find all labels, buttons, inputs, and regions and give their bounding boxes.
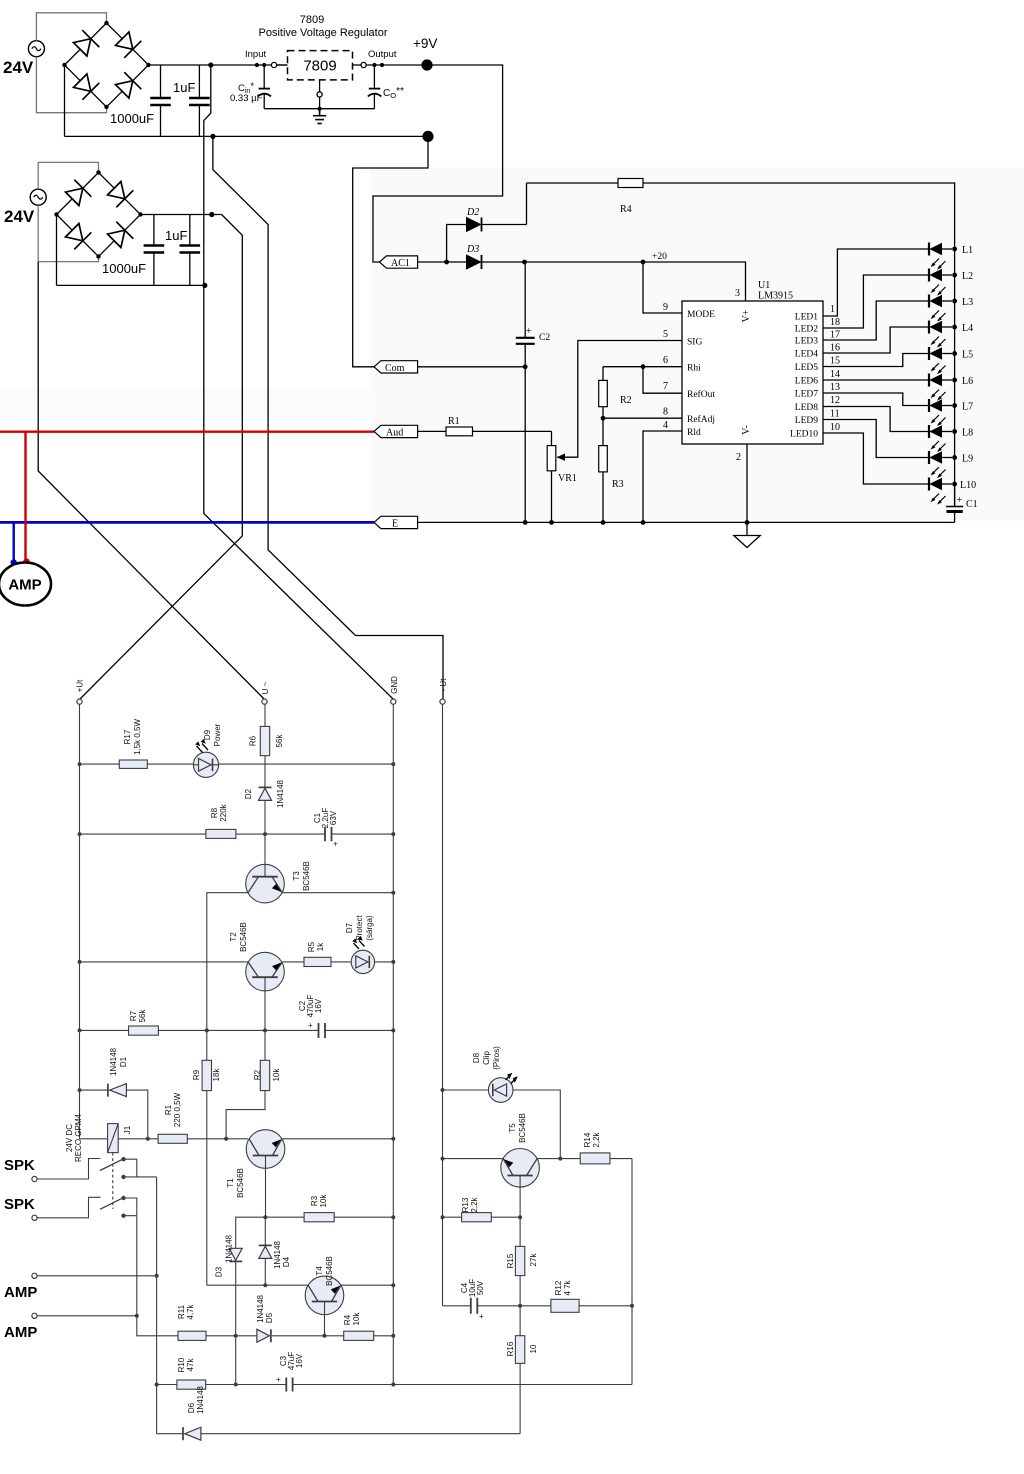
junction dots R3 row: [263, 1215, 395, 1219]
wire source2 to U~ route: [38, 262, 264, 699]
junction dot +20 at C2: [522, 260, 527, 265]
svg-text:4: 4: [663, 420, 668, 431]
wire LED8 pin 12: [823, 407, 929, 432]
svg-text:R6: R6: [249, 735, 258, 746]
svg-text:T2: T2: [229, 932, 238, 942]
svg-text:R15: R15: [506, 1253, 515, 1268]
svg-text:BC546B: BC546B: [302, 861, 311, 891]
AC source V2 24V (bridge 2): [30, 189, 46, 205]
svg-text:1: 1: [830, 304, 835, 315]
LED L3: [929, 295, 957, 322]
wire branch up to D2: [447, 225, 467, 263]
right rail: [631, 1159, 633, 1385]
bridge B2 diode top-right: [108, 182, 134, 208]
wire D1 row: [80, 1089, 108, 1091]
svg-text:D3: D3: [215, 1266, 224, 1277]
svg-text:SIG: SIG: [687, 338, 702, 348]
pin MODE (9): [643, 262, 715, 320]
AC source V1 24V (bridge 1): [28, 41, 44, 57]
svg-text:18k: 18k: [212, 1068, 221, 1082]
LED L4: [929, 321, 957, 348]
wire E rail: [418, 521, 955, 523]
svg-text:R11: R11: [177, 1304, 186, 1319]
svg-text:Aud: Aud: [386, 427, 403, 438]
svg-text:9: 9: [663, 302, 668, 313]
svg-text:Positive Voltage Regulator: Positive Voltage Regulator: [258, 27, 387, 39]
svg-text:AMP: AMP: [8, 577, 41, 594]
resistor R14: [580, 1153, 610, 1164]
D5 row wire: [206, 1335, 393, 1337]
diode D5: [257, 1329, 271, 1342]
LED L8: [929, 425, 957, 452]
AMP block circle: [0, 563, 51, 606]
transistor T3: [246, 834, 285, 903]
bridge rectifier B2 edges: [57, 173, 141, 257]
wire LED9 pin 11: [823, 420, 929, 458]
svg-text:RefAdj: RefAdj: [687, 414, 715, 425]
wire T2 emitter to R5: [282, 961, 304, 963]
svg-text:R14: R14: [583, 1132, 592, 1147]
bridge B2 diode left-top: [66, 180, 92, 206]
LED D8 Clip: [488, 1073, 560, 1159]
capacitor 1uF (bridge 2): [180, 215, 201, 286]
wire B1 ground to -Ut route: [213, 136, 443, 699]
node dot +9V (big): [421, 59, 432, 70]
red node dot AMP: [23, 558, 29, 564]
svg-text:D7: D7: [345, 922, 354, 933]
svg-text:5: 5: [663, 329, 668, 340]
svg-text:VR1: VR1: [558, 473, 577, 484]
svg-text:R13: R13: [461, 1197, 470, 1212]
resistor R9: [202, 1030, 211, 1285]
potentiometer VR1: [547, 431, 566, 522]
capacitor C1 (top section): [946, 484, 963, 522]
svg-text:RECO GPM4: RECO GPM4: [74, 1113, 83, 1162]
svg-text:D9: D9: [203, 729, 212, 740]
svg-text:R2: R2: [620, 395, 632, 406]
svg-text:13: 13: [830, 382, 840, 393]
svg-text:15: 15: [830, 356, 840, 367]
wire +20 line (D3 to pin3): [525, 262, 746, 301]
svg-text:24V: 24V: [3, 58, 34, 77]
svg-text:R7: R7: [129, 1010, 138, 1021]
relay coil J1: [80, 1124, 159, 1153]
svg-text:R12: R12: [554, 1280, 563, 1295]
wire R14 to right rail: [610, 1158, 632, 1160]
resistor R13: [462, 1213, 492, 1222]
bridge B2 diode bottom-right: [108, 222, 134, 248]
svg-text:+20: +20: [652, 252, 667, 262]
wire LED6 pin 14: [823, 379, 929, 381]
U~ rail to R6: [264, 704, 266, 726]
wire B2+ to +Ut route: [80, 215, 242, 700]
svg-text:R5: R5: [307, 941, 316, 952]
node dot ground rail (big): [422, 131, 433, 142]
svg-text:L6: L6: [962, 376, 973, 387]
terminal +Ut: [77, 699, 82, 704]
AMP terminal 2: [32, 1313, 37, 1318]
junction dots D5 row: [234, 1334, 396, 1338]
wire AC1 to D3: [418, 261, 467, 263]
LED L5: [929, 347, 957, 374]
transistor T2: [246, 952, 285, 1030]
svg-text:R17: R17: [123, 729, 132, 744]
capacitor C1 (display board): [325, 827, 338, 849]
resistor R3: [599, 446, 608, 523]
resistor R2: [599, 367, 608, 446]
SPK terminal 1: [32, 1176, 37, 1181]
junction dot Rhi/RefOut: [641, 364, 646, 369]
svg-text:LED10: LED10: [790, 430, 818, 440]
junction dots row2: [78, 832, 396, 836]
svg-text:16: 16: [830, 343, 840, 354]
wire B2 + output rail (y=214.5): [141, 214, 222, 216]
LED L1: [929, 243, 957, 270]
svg-text:1N4148: 1N4148: [196, 1385, 205, 1414]
junction dot D2/D3 branch: [444, 260, 449, 265]
junction dot T3 emitter/GND: [391, 891, 395, 895]
svg-text:LED5: LED5: [795, 363, 818, 373]
R13 row wire: [443, 1216, 521, 1218]
wire B2 left node down: [56, 215, 58, 286]
svg-text:4 7k: 4 7k: [563, 1279, 572, 1295]
wire T5 collector to R14: [537, 1158, 580, 1160]
svg-text:R4: R4: [620, 204, 632, 215]
svg-text:Input: Input: [245, 49, 266, 60]
svg-text:1,5k 0,5W: 1,5k 0,5W: [133, 719, 142, 755]
relay contact 2: [37, 1196, 137, 1218]
junction dots on E rail: [523, 520, 750, 525]
svg-text:D6: D6: [187, 1402, 196, 1413]
svg-text:BC546B: BC546B: [239, 922, 248, 952]
svg-text:+: +: [479, 1312, 484, 1321]
svg-text:R3: R3: [310, 1195, 319, 1206]
pin SIG (5): [559, 329, 702, 457]
red wire stub to AMP: [24, 432, 26, 559]
diode D3 (display board): [229, 1248, 242, 1384]
svg-text:6: 6: [663, 355, 668, 366]
svg-text:(sárga): (sárga): [365, 915, 374, 941]
svg-text:1k: 1k: [316, 942, 325, 951]
wire source1 bottom loop: [36, 57, 106, 113]
resistor R11: [178, 1331, 206, 1340]
capacitor 1000uF (bridge 2): [144, 215, 165, 286]
junction dots row5: [78, 1028, 396, 1032]
svg-text:1N4148: 1N4148: [273, 1240, 282, 1269]
junction dot B2 + rail: [209, 212, 214, 217]
terminal -Ut: [440, 699, 445, 704]
junction dots R13 row: [441, 1215, 523, 1219]
svg-text:LED6: LED6: [795, 377, 818, 387]
wire LED3 pin 17: [823, 301, 929, 340]
svg-text:LED4: LED4: [795, 350, 818, 360]
output junction dots: [372, 63, 384, 67]
wire R5 to D7: [331, 961, 351, 963]
svg-text:E: E: [392, 519, 398, 530]
svg-text:1N4148: 1N4148: [276, 779, 285, 808]
svg-text:T1: T1: [226, 1178, 235, 1188]
svg-text:47k: 47k: [186, 1358, 195, 1372]
node dots bridge B2: [54, 170, 142, 258]
wire B1 + output rail (y=65): [149, 64, 288, 66]
bridge B2 diode left-bottom: [66, 224, 92, 250]
svg-text:Rhi: Rhi: [687, 364, 701, 374]
svg-text:SPK: SPK: [4, 1196, 35, 1213]
svg-text:56k: 56k: [138, 1009, 147, 1023]
LED column rail: [954, 249, 956, 506]
D6 row wire: [157, 1433, 183, 1435]
capacitor C3: [276, 1375, 293, 1392]
svg-text:LED7: LED7: [795, 390, 818, 400]
LED L9: [929, 451, 957, 478]
svg-text:1N4148: 1N4148: [109, 1047, 118, 1076]
junction dot T4/GND: [391, 1283, 395, 1287]
pin RefOut (7): [643, 367, 715, 401]
svg-text:R1: R1: [164, 1104, 173, 1115]
svg-text:+: +: [333, 840, 338, 849]
transistor T1: [246, 1130, 285, 1218]
capacitor C4: [471, 1298, 484, 1321]
svg-text:220 0,5W: 220 0,5W: [173, 1092, 182, 1127]
diode D3: [467, 255, 525, 269]
wire +9V to AC1 routing: [373, 65, 503, 262]
diode D2 (display board): [259, 787, 272, 834]
junction dot 7809 ground: [318, 107, 322, 111]
svg-text:17: 17: [830, 330, 840, 341]
svg-text:Rld: Rld: [687, 428, 701, 438]
svg-text:R2: R2: [253, 1069, 262, 1080]
svg-text:L7: L7: [962, 402, 973, 413]
svg-text:AC1: AC1: [391, 258, 410, 269]
LED L7: [929, 399, 957, 426]
input junction dots: [255, 63, 267, 67]
resistor R5: [304, 957, 331, 966]
capacitor Cin 0.33uF: [258, 65, 271, 109]
wire contact1 down column: [156, 1177, 158, 1434]
wire LED10 pin 10: [823, 433, 929, 484]
junction dot +20 at MODE branch: [641, 260, 646, 265]
wire B1 ground rail (y=136.4): [65, 135, 429, 137]
svg-text:L10: L10: [960, 480, 976, 491]
svg-text:2: 2: [736, 452, 741, 463]
row3 wire T2 collector from +Ut: [80, 961, 249, 963]
svg-text:R3: R3: [612, 479, 624, 490]
svg-text:10k: 10k: [272, 1068, 281, 1082]
svg-text:L1: L1: [962, 245, 973, 256]
tag AC1: [380, 256, 418, 269]
wire B2 ground rail (y=285.4): [57, 284, 205, 286]
pin V- (2) stub: [736, 444, 747, 536]
bridge rectifier B1 edges: [65, 23, 149, 107]
+Ut rail: [79, 704, 81, 1139]
svg-text:T4: T4: [315, 1266, 324, 1276]
pin labels LED1-LED10: [790, 313, 818, 440]
svg-text:AMP: AMP: [4, 1324, 37, 1341]
svg-text:1000uF: 1000uF: [102, 261, 146, 276]
svg-text:GND: GND: [390, 676, 399, 694]
transistor T4: [305, 1276, 344, 1336]
junction dot D8/-Ut: [441, 1088, 445, 1092]
svg-text:Com: Com: [385, 363, 405, 374]
svg-text:1uF: 1uF: [173, 80, 195, 95]
svg-text:MODE: MODE: [687, 310, 715, 320]
blue wire stub to AMP: [12, 522, 14, 560]
regulator U 7809 dashed box: [288, 51, 353, 80]
svg-text:24V: 24V: [4, 207, 35, 226]
svg-text:R1: R1: [448, 416, 460, 427]
svg-text:220k: 220k: [219, 803, 228, 821]
R3 row wire: [236, 1217, 394, 1248]
relay contact 1: [37, 1157, 157, 1179]
svg-text:T5: T5: [508, 1123, 517, 1133]
svg-text:D4: D4: [282, 1256, 291, 1267]
svg-text:0.33 µF: 0.33 µF: [230, 93, 263, 104]
junction dot AMP1: [155, 1274, 159, 1278]
svg-text:L3: L3: [962, 297, 973, 308]
wire T4 emitter to GND rail: [341, 1284, 393, 1286]
wire source1 top loop: [36, 13, 106, 41]
resistor R6: [260, 726, 269, 787]
bridge B1 diode left-bottom: [74, 74, 100, 100]
svg-text:Power: Power: [213, 723, 222, 746]
svg-text:+: +: [308, 1021, 313, 1030]
junction dots C3 row: [155, 1383, 396, 1387]
svg-text:24V DC: 24V DC: [65, 1124, 74, 1152]
resistor R17: [119, 760, 147, 768]
resistor R10: [177, 1380, 206, 1389]
wire AMP1: [37, 1275, 157, 1277]
resistor R1: [446, 427, 473, 436]
resistor R16: [515, 1306, 524, 1434]
svg-text:BC546B: BC546B: [325, 1256, 334, 1286]
junction dot D8 branch/T5 row: [558, 1157, 562, 1161]
LED D7 Protect: [351, 936, 374, 974]
svg-text:11: 11: [830, 409, 840, 420]
wire Aud to R1: [418, 430, 446, 432]
svg-text:LED3: LED3: [795, 337, 818, 347]
svg-text:Protect: Protect: [355, 915, 364, 941]
tag Aud: [374, 425, 418, 438]
junction dot row3 +Ut: [78, 960, 82, 964]
svg-text:18: 18: [830, 317, 840, 328]
svg-text:27k: 27k: [529, 1253, 538, 1267]
blue wire E feed: [0, 521, 374, 524]
junction dot D1/+Ut: [78, 1088, 82, 1092]
svg-text:V+: V+: [741, 309, 752, 322]
resistor R12: [551, 1299, 579, 1312]
pin Rld (4): [643, 420, 701, 522]
svg-text:10: 10: [529, 1344, 538, 1353]
svg-text:J1: J1: [123, 1125, 132, 1134]
wire LED4 pin 16: [823, 327, 929, 353]
T5 row wire left: [443, 1158, 504, 1160]
diode D1: [108, 1084, 148, 1139]
svg-text:R10: R10: [177, 1357, 186, 1372]
wire T3 collector to R9 column: [207, 893, 248, 1031]
capacitor 1uF (bridge 1): [189, 65, 210, 136]
output pin terminal circle: [353, 62, 428, 67]
junction dot R1/R2/T1: [224, 1137, 228, 1141]
junction dot D4/T4 row: [263, 1283, 267, 1287]
diode D2: [467, 218, 527, 232]
svg-text:LED2: LED2: [795, 325, 818, 335]
svg-text:RefOut: RefOut: [687, 389, 715, 400]
blue node dot AMP: [11, 559, 17, 565]
resistor R8: [206, 829, 236, 838]
svg-text:4,7k: 4,7k: [186, 1303, 195, 1319]
resistor R4: [618, 179, 643, 188]
svg-text:56k: 56k: [275, 734, 284, 748]
svg-text:C1: C1: [966, 499, 978, 510]
capacitor Co: [368, 65, 381, 109]
terminal GND: [391, 699, 396, 704]
svg-text:3: 3: [735, 288, 740, 299]
wire T1 emitter to GND rail: [282, 1138, 393, 1140]
svg-text:7809: 7809: [303, 58, 336, 75]
capacitor C2 (top section): [516, 262, 535, 522]
svg-text:L8: L8: [962, 428, 973, 439]
pin RefAdj (8): [603, 407, 715, 426]
svg-text:16V: 16V: [314, 998, 323, 1013]
svg-text:1N4148: 1N4148: [225, 1234, 234, 1263]
svg-text:+: +: [526, 326, 532, 337]
T4 collector row wire: [207, 1284, 308, 1286]
junction dot AMP2: [135, 1314, 139, 1318]
svg-text:10: 10: [830, 422, 840, 433]
svg-text:12: 12: [830, 395, 840, 406]
svg-text:C2: C2: [539, 333, 550, 343]
svg-text:D1: D1: [119, 1056, 128, 1067]
svg-text:7809: 7809: [300, 14, 324, 26]
svg-text:L2: L2: [962, 271, 973, 282]
svg-text:1N4148: 1N4148: [256, 1294, 265, 1323]
resistor R4 (display board): [344, 1331, 374, 1340]
svg-text:R9: R9: [192, 1069, 201, 1080]
wire ground rail to Com routing: [353, 136, 428, 366]
bridge B1 diode top-right: [116, 32, 142, 58]
svg-text:7: 7: [663, 381, 668, 392]
svg-text:- Ut: - Ut: [439, 678, 448, 692]
wire B1 left node to ground rail: [64, 65, 66, 136]
bridge B1 diode bottom-right: [116, 72, 142, 98]
svg-text:LM3915: LM3915: [758, 291, 793, 302]
relay mechanical link (dashed): [112, 1153, 114, 1209]
capacitor 1000uF (bridge 1): [150, 65, 171, 136]
C3 row wire: [157, 1384, 632, 1386]
svg-text:2,2k: 2,2k: [592, 1131, 601, 1147]
tag Com: [374, 361, 418, 374]
wire B1+ to bridge2 ground (GND diagonal route): [204, 65, 394, 700]
junction dot R2/RefAdj: [601, 416, 606, 421]
svg-text:+Ut: +Ut: [76, 679, 85, 692]
svg-text:R8: R8: [210, 807, 219, 818]
svg-text:10k: 10k: [352, 1312, 361, 1326]
junction dots C4 row: [518, 1304, 634, 1308]
row1 wire (+Ut to D9 to GND): [80, 763, 394, 765]
svg-text:LED1: LED1: [795, 313, 818, 323]
svg-text:U ~: U ~: [261, 681, 270, 694]
LED L10: [929, 478, 957, 505]
transistor T5: [501, 1149, 540, 1218]
wire 7809 ground bottom rail: [264, 108, 374, 110]
junction dot T1/GND: [391, 1137, 395, 1141]
junction dot B2 ground rail: [202, 283, 207, 288]
ground symbol (LM3915): [734, 536, 760, 548]
svg-text:1000uF: 1000uF: [110, 111, 154, 126]
svg-text:2,2k: 2,2k: [470, 1196, 479, 1212]
svg-text:14: 14: [830, 369, 840, 380]
wire LED1 pin 1: [823, 249, 929, 316]
